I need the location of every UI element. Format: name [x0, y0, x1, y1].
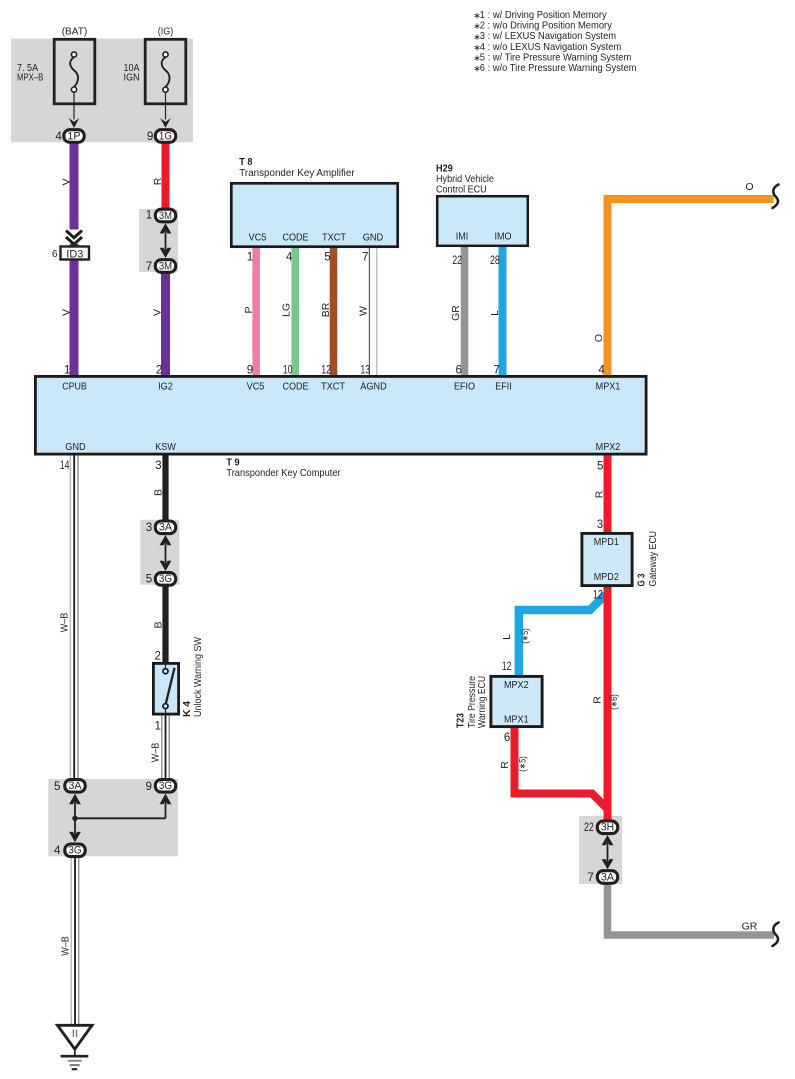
svg-text:MPX1: MPX1	[596, 381, 621, 393]
svg-text:CODE: CODE	[282, 232, 308, 244]
svg-text:GR: GR	[742, 920, 758, 932]
svg-text:3A: 3A	[68, 780, 82, 792]
svg-text:VC5: VC5	[249, 232, 267, 244]
svg-text:CPUB: CPUB	[62, 381, 87, 393]
svg-text:12: 12	[593, 589, 603, 602]
svg-text:3G: 3G	[68, 845, 81, 857]
svg-text:EFII: EFII	[495, 381, 512, 393]
svg-text:13: 13	[360, 363, 370, 376]
svg-text:K 4: K 4	[182, 701, 193, 717]
svg-text:7: 7	[587, 871, 593, 884]
svg-text:P: P	[243, 306, 255, 313]
svg-text:4: 4	[55, 130, 62, 143]
svg-text:KSW: KSW	[155, 441, 176, 453]
svg-text:5: 5	[146, 573, 152, 586]
svg-text:(∗6): (∗6)	[609, 694, 620, 710]
svg-text:(∗5): (∗5)	[518, 756, 529, 772]
svg-text:1G: 1G	[159, 130, 172, 142]
svg-text:R: R	[593, 490, 605, 498]
svg-text:Transponder Key Amplifier: Transponder Key Amplifier	[239, 167, 355, 179]
svg-text:4: 4	[54, 844, 61, 857]
svg-text:T23: T23	[456, 713, 467, 728]
svg-text:12: 12	[321, 363, 331, 376]
svg-text:VC5: VC5	[247, 381, 265, 393]
svg-text:IGN: IGN	[124, 72, 140, 84]
svg-text:B: B	[153, 489, 165, 496]
svg-text:V: V	[61, 178, 73, 185]
svg-text:3H: 3H	[601, 822, 614, 834]
svg-text:ID3: ID3	[66, 248, 83, 260]
svg-text:MPD2: MPD2	[594, 571, 619, 583]
svg-text:L: L	[501, 634, 513, 640]
svg-text:MPD1: MPD1	[594, 536, 619, 548]
svg-text:Control ECU: Control ECU	[436, 184, 487, 196]
svg-text:9: 9	[147, 130, 153, 143]
svg-text:6: 6	[52, 249, 58, 260]
svg-text:(BAT): (BAT)	[62, 26, 88, 38]
svg-text:EFIO: EFIO	[454, 381, 475, 393]
svg-text:MPX2: MPX2	[596, 441, 621, 453]
svg-text:9: 9	[247, 363, 253, 376]
svg-text:6 : w/o Tire Pressure Warning: 6 : w/o Tire Pressure Warning System	[480, 62, 637, 74]
svg-text:O: O	[745, 181, 753, 193]
svg-text:GND: GND	[363, 232, 384, 244]
svg-text:3: 3	[146, 521, 152, 534]
svg-text:Unlock Warning SW: Unlock Warning SW	[193, 637, 204, 717]
svg-text:9: 9	[146, 780, 152, 793]
svg-text:GR: GR	[450, 305, 462, 321]
svg-text:5: 5	[597, 460, 603, 473]
svg-text:(IG): (IG)	[158, 26, 174, 38]
svg-text:3G: 3G	[159, 780, 172, 792]
svg-text:10: 10	[283, 363, 293, 376]
svg-text:IMO: IMO	[494, 231, 511, 243]
svg-text:W–B: W–B	[58, 613, 70, 633]
svg-text:5: 5	[324, 250, 330, 263]
svg-text:W: W	[358, 306, 370, 316]
svg-text:1P: 1P	[67, 130, 80, 142]
svg-text:1: 1	[247, 250, 253, 263]
svg-text:1: 1	[64, 363, 70, 376]
svg-text:3A: 3A	[601, 871, 615, 883]
svg-text:Transponder Key Computer: Transponder Key Computer	[226, 467, 341, 479]
svg-text:3M: 3M	[159, 260, 172, 272]
svg-text:5: 5	[54, 780, 60, 793]
svg-text:28: 28	[490, 254, 500, 267]
svg-text:2: 2	[155, 650, 161, 663]
svg-text:3: 3	[155, 459, 161, 472]
svg-text:7: 7	[146, 260, 152, 273]
svg-text:22: 22	[584, 821, 594, 834]
svg-text:IMI: IMI	[456, 231, 469, 243]
svg-text:7: 7	[362, 250, 368, 263]
svg-text:CODE: CODE	[282, 381, 308, 393]
svg-text:3: 3	[597, 518, 603, 531]
svg-text:3A: 3A	[159, 522, 173, 534]
svg-text:Warning ECU: Warning ECU	[477, 676, 488, 728]
svg-text:6: 6	[456, 363, 462, 376]
svg-text:7: 7	[493, 363, 499, 376]
svg-text:6: 6	[504, 731, 510, 744]
svg-text:GND: GND	[65, 441, 86, 453]
svg-text:L: L	[489, 310, 501, 316]
svg-text:22: 22	[452, 254, 462, 267]
svg-text:R: R	[499, 761, 511, 769]
svg-text:1: 1	[146, 208, 152, 221]
svg-text:1: 1	[155, 720, 161, 733]
svg-text:3G: 3G	[159, 573, 172, 585]
svg-text:12: 12	[502, 660, 512, 673]
svg-text:AGND: AGND	[360, 381, 387, 393]
svg-text:V: V	[152, 309, 164, 316]
svg-text:R: R	[152, 177, 164, 185]
svg-text:TXCT: TXCT	[321, 381, 346, 393]
svg-text:4: 4	[286, 250, 293, 263]
svg-text:R: R	[592, 696, 604, 704]
svg-text:W–B: W–B	[150, 743, 162, 763]
svg-text:B: B	[153, 621, 165, 628]
svg-text:3M: 3M	[159, 210, 172, 222]
svg-text:W–B: W–B	[59, 936, 71, 956]
svg-text:LG: LG	[281, 303, 293, 317]
svg-text:G 3: G 3	[637, 573, 648, 586]
svg-text:IG2: IG2	[158, 381, 173, 393]
svg-text:14: 14	[60, 459, 70, 472]
svg-text:(∗5): (∗5)	[520, 628, 531, 644]
svg-text:MPX–B: MPX–B	[17, 72, 43, 84]
svg-text:MPX2: MPX2	[504, 679, 529, 691]
svg-text:MPX1: MPX1	[504, 713, 529, 725]
svg-text:V: V	[60, 309, 72, 316]
svg-text:BR: BR	[320, 302, 332, 317]
svg-text:TXCT: TXCT	[322, 232, 347, 244]
svg-text:Gateway ECU: Gateway ECU	[648, 531, 659, 587]
svg-text:2: 2	[156, 363, 162, 376]
svg-text:4: 4	[598, 363, 605, 376]
svg-text:O: O	[593, 334, 605, 342]
svg-text:T 8: T 8	[239, 156, 252, 168]
